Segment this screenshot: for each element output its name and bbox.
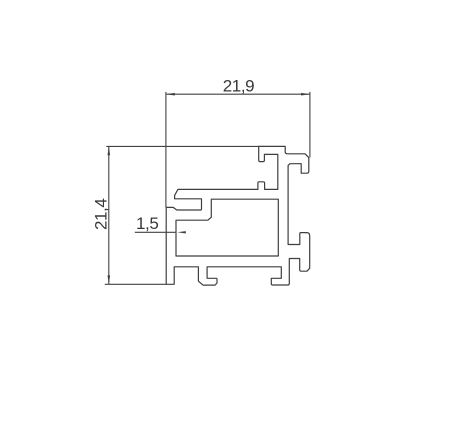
profile outer outline [166,146,310,285]
arrow bottom of 21,4 [108,275,111,284]
svg-text:21,4: 21,4 [91,199,110,231]
extension line right (21,9) [309,92,311,157]
dimension line 21,4 [108,146,110,284]
extension line bottom (21,4) [105,283,166,285]
dimension line 1,5 [135,231,176,233]
inner chamber hole [176,199,278,256]
arrow right of 21,9 [301,93,310,96]
arrow top of 21,4 [108,146,111,155]
arrow left of 21,9 [166,93,175,96]
svg-text:21,9: 21,9 [223,77,255,96]
svg-text:1,5: 1,5 [136,214,158,233]
arrow of 1,5 [177,231,186,233]
extension line top (21,4) [106,145,258,147]
extension line left (21,9) [165,92,167,207]
dimension line 21,9 [166,93,310,95]
